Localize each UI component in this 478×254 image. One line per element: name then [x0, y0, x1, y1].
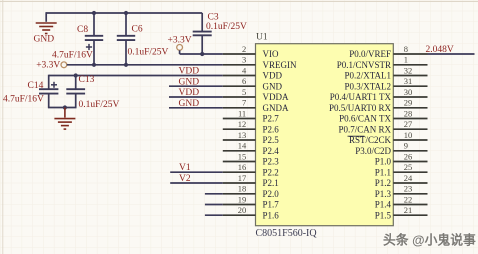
svg-text:RST/C2CK: RST/C2CK	[349, 135, 392, 145]
svg-text:P1.0: P1.0	[375, 157, 392, 167]
svg-text:V1: V1	[179, 163, 191, 173]
svg-text:25: 25	[404, 162, 413, 172]
svg-text:1: 1	[404, 55, 408, 65]
svg-text:P2.6: P2.6	[263, 124, 280, 134]
svg-text:P0.3/XTAL2: P0.3/XTAL2	[344, 82, 391, 92]
svg-text:P0.4/UART1 TX: P0.4/UART1 TX	[330, 92, 392, 102]
svg-text:28: 28	[404, 108, 413, 118]
svg-text:VDDA: VDDA	[263, 92, 289, 102]
svg-text:18: 18	[238, 184, 247, 194]
svg-text:22: 22	[404, 194, 413, 204]
svg-text:2.048V: 2.048V	[426, 45, 454, 55]
svg-text:7: 7	[242, 98, 246, 108]
svg-text:8: 8	[404, 44, 408, 54]
svg-text:P1.3: P1.3	[375, 189, 392, 199]
svg-text:21: 21	[404, 205, 413, 215]
svg-text:P0.6/CAN TX: P0.6/CAN TX	[339, 114, 391, 124]
svg-text:P3.0/C2D: P3.0/C2D	[355, 146, 391, 156]
svg-text:11: 11	[238, 108, 246, 118]
svg-text:9: 9	[404, 141, 408, 151]
svg-text:+3.3V: +3.3V	[36, 61, 60, 71]
svg-text:头条 @小鬼说事: 头条 @小鬼说事	[383, 232, 476, 247]
svg-text:10: 10	[404, 130, 413, 140]
svg-text:P2.5: P2.5	[263, 135, 280, 145]
svg-text:4.7uF/16V: 4.7uF/16V	[3, 95, 44, 105]
svg-text:P0.2/XTAL1: P0.2/XTAL1	[344, 71, 391, 81]
svg-text:P1.1: P1.1	[375, 167, 391, 177]
svg-text:V2: V2	[179, 174, 191, 184]
svg-text:P2.7: P2.7	[263, 114, 280, 124]
svg-text:P2.2: P2.2	[263, 167, 279, 177]
svg-text:P2.1: P2.1	[263, 178, 279, 188]
svg-text:P1.4: P1.4	[375, 200, 392, 210]
svg-text:P0.5/UART0 RX: P0.5/UART0 RX	[329, 103, 391, 113]
svg-text:GND: GND	[179, 99, 200, 109]
svg-text:VDD: VDD	[179, 67, 200, 77]
svg-text:6: 6	[242, 76, 246, 86]
svg-text:GND: GND	[34, 34, 55, 44]
svg-text:+3.3V: +3.3V	[168, 36, 192, 46]
svg-text:P1.5: P1.5	[375, 210, 392, 220]
svg-text:19: 19	[238, 194, 247, 204]
svg-text:GNDA: GNDA	[263, 103, 289, 113]
svg-text:24: 24	[404, 173, 413, 183]
svg-text:P0.7/CAN RX: P0.7/CAN RX	[338, 124, 391, 134]
svg-text:23: 23	[404, 184, 413, 194]
svg-text:C3: C3	[208, 13, 219, 23]
svg-text:2: 2	[242, 44, 246, 54]
svg-text:29: 29	[404, 98, 413, 108]
svg-text:26: 26	[404, 151, 413, 161]
svg-text:C13: C13	[79, 75, 95, 85]
svg-text:C8051F560-IQ: C8051F560-IQ	[256, 228, 318, 239]
svg-text:0.1uF/25V: 0.1uF/25V	[206, 22, 247, 32]
svg-text:GND: GND	[263, 82, 283, 92]
svg-text:C8: C8	[77, 25, 88, 35]
svg-text:31: 31	[404, 76, 413, 86]
svg-text:4: 4	[242, 65, 247, 75]
svg-text:P2.3: P2.3	[263, 157, 280, 167]
svg-text:0.1uF/25V: 0.1uF/25V	[79, 100, 120, 110]
svg-text:VREGIN: VREGIN	[263, 60, 297, 70]
svg-text:VDD: VDD	[263, 71, 283, 81]
svg-text:30: 30	[404, 87, 413, 97]
svg-text:P0.0/VREF: P0.0/VREF	[349, 49, 391, 59]
svg-text:27: 27	[404, 119, 413, 129]
svg-text:12: 12	[238, 119, 247, 129]
svg-text:P1.7: P1.7	[263, 200, 280, 210]
svg-text:C6: C6	[132, 25, 143, 35]
svg-text:VIO: VIO	[263, 49, 279, 59]
svg-text:P1.6: P1.6	[263, 210, 280, 220]
svg-text:14: 14	[238, 141, 247, 151]
svg-text:VDD: VDD	[179, 88, 200, 98]
svg-text:4.7uF/16V: 4.7uF/16V	[52, 51, 93, 61]
svg-text:P2.0: P2.0	[263, 189, 280, 199]
svg-text:U1: U1	[256, 33, 268, 43]
svg-text:GND: GND	[179, 78, 200, 88]
svg-text:P2.4: P2.4	[263, 146, 280, 156]
svg-text:32: 32	[404, 65, 413, 75]
svg-text:3: 3	[242, 55, 246, 65]
svg-text:13: 13	[238, 130, 247, 140]
svg-text:17: 17	[238, 173, 247, 183]
svg-text:20: 20	[238, 205, 247, 215]
svg-text:P1.2: P1.2	[375, 178, 391, 188]
svg-text:0.1uF/25V: 0.1uF/25V	[128, 48, 169, 58]
svg-text:15: 15	[238, 151, 247, 161]
svg-text:C14: C14	[28, 81, 44, 91]
svg-text:5: 5	[242, 87, 246, 97]
svg-text:16: 16	[238, 162, 247, 172]
svg-text:P0.1/CNVSTR: P0.1/CNVSTR	[337, 60, 391, 70]
